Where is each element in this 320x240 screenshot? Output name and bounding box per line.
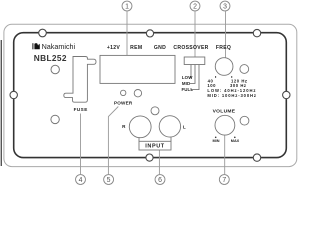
svg-text:L: L: [183, 125, 186, 130]
svg-text:+12V: +12V: [107, 45, 121, 51]
svg-text:INPUT: INPUT: [145, 144, 165, 150]
svg-text:3: 3: [223, 3, 227, 10]
svg-text:7: 7: [222, 177, 226, 184]
svg-text:4: 4: [79, 177, 83, 184]
svg-text:MIN: MIN: [213, 139, 220, 143]
svg-text:LOW: LOW: [182, 75, 193, 80]
svg-text:MID: MID: [182, 81, 190, 86]
svg-text:1: 1: [125, 3, 129, 10]
svg-text:2: 2: [193, 3, 197, 10]
svg-text:GND: GND: [154, 45, 166, 51]
svg-text:MID: 100Hz-300Hz: MID: 100Hz-300Hz: [207, 93, 256, 98]
svg-text:Nakamichi: Nakamichi: [42, 42, 76, 51]
svg-text:FULL: FULL: [182, 87, 194, 92]
svg-text:POWER: POWER: [114, 101, 133, 106]
svg-text:NBL252: NBL252: [34, 53, 67, 63]
svg-text:CROSSOVER: CROSSOVER: [173, 45, 208, 51]
svg-text:5: 5: [107, 177, 111, 184]
svg-text:FREQ: FREQ: [216, 45, 231, 51]
svg-text:FUSE: FUSE: [74, 107, 88, 112]
svg-text:VOLUME: VOLUME: [213, 108, 236, 114]
svg-text:REM: REM: [130, 45, 142, 51]
svg-text:6: 6: [158, 177, 162, 184]
svg-text:MAX: MAX: [231, 139, 240, 143]
